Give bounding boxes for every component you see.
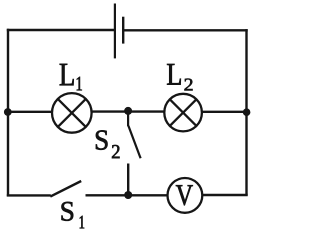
wire top left (corner to battery) (7, 29, 115, 31)
wire bottom right (voltmeter to corner) (202, 194, 247, 196)
label L1 (60, 64, 82, 91)
wire bottom left (corner to S1 hinge) (7, 194, 51, 196)
wire lamp row left (7, 111, 53, 113)
wire top right (battery to corner) (123, 29, 248, 31)
lamp L1 (52, 93, 92, 133)
junction node bottom (switch S2 / bottom wire) (124, 191, 132, 199)
wire lamp row right (202, 111, 248, 113)
label L2 (167, 64, 192, 90)
battery long plate (114, 4, 116, 59)
switch S1 blade (50, 181, 81, 197)
junction node right (lamp row / right wire) (243, 108, 251, 116)
junction node mid (lamp row / switch S2) (124, 107, 132, 115)
switch S2 (128, 111, 141, 195)
label S1 (62, 202, 85, 228)
junction node left (lamp row / left wire) (4, 108, 12, 116)
label S2 (96, 130, 120, 158)
wire left side (7, 29, 9, 197)
wire right side (245, 29, 247, 196)
wire lamp row middle (L1 to L2) (92, 110, 165, 112)
wire bottom middle (S1 contact to voltmeter) (86, 194, 168, 196)
voltmeter V (168, 178, 203, 213)
voltmeter label V (176, 185, 193, 205)
lamp L2 (164, 94, 202, 132)
battery short plate (122, 17, 124, 44)
